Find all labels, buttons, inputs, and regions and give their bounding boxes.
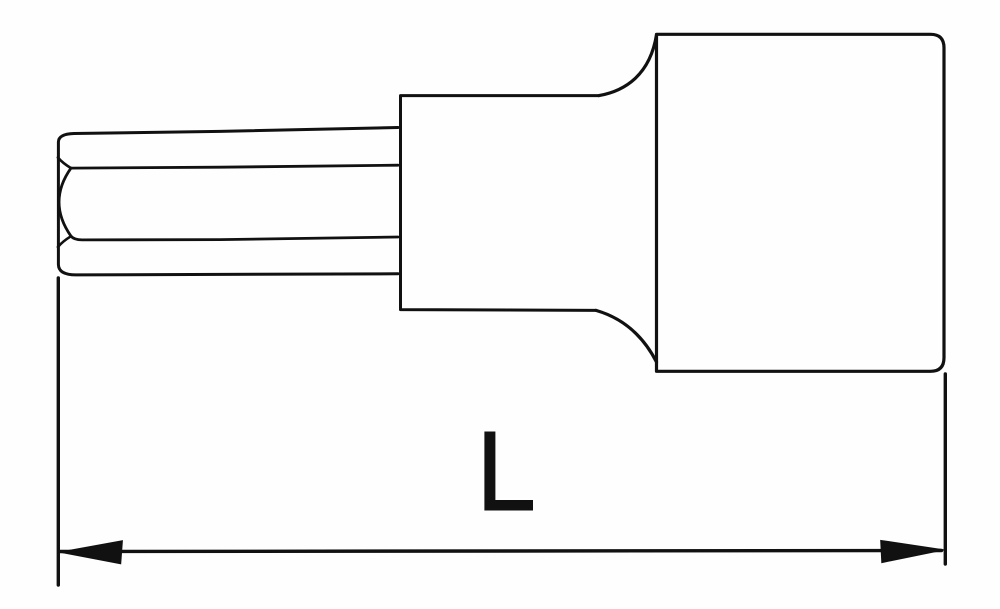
- hex bit outer outline: [58, 128, 398, 275]
- hex chamfer lower cusp: [58, 236, 71, 247]
- dimension arrowhead right: [881, 540, 944, 562]
- neck fillet top: [599, 35, 657, 96]
- dimension extension line right: [944, 374, 947, 564]
- socket body: [657, 34, 945, 371]
- hex flat edge line 1: [71, 165, 398, 168]
- neck fillet bottom: [596, 310, 657, 362]
- hex flat edge line 2: [71, 236, 398, 240]
- dimension label L: [484, 432, 533, 511]
- dimension extension line left: [57, 278, 60, 585]
- hex vertex chamfer arc: [59, 168, 71, 236]
- dimension arrowhead left: [60, 541, 123, 564]
- dimension line: [60, 551, 942, 552]
- shank (middle cylinder): [401, 96, 600, 311]
- hex chamfer upper cusp: [58, 158, 71, 169]
